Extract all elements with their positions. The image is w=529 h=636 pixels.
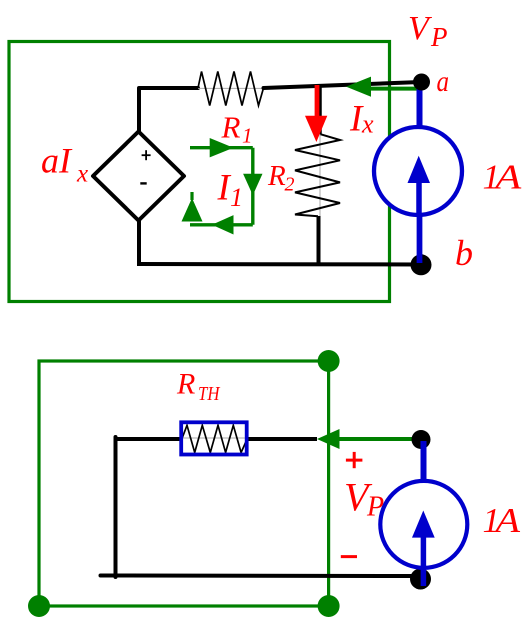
green arrow to VP+ (tail) bbox=[338, 437, 421, 441]
green junction dot top-right bbox=[318, 350, 340, 372]
svg-text:P: P bbox=[366, 492, 384, 523]
node a dot bbox=[413, 74, 430, 91]
svg-text:1: 1 bbox=[230, 183, 243, 212]
green outer loop rectangle bbox=[39, 361, 329, 606]
mesh current I1 loop: top line bbox=[190, 146, 253, 149]
svg-text:R: R bbox=[176, 368, 195, 401]
wire: sloped from R1 to node a bbox=[264, 82, 422, 88]
blue wire node to source top (bottom circuit) bbox=[421, 441, 427, 482]
current source arrowhead (up) bbox=[408, 156, 431, 183]
svg-text:V: V bbox=[408, 10, 433, 47]
wire: thin line through RTH bbox=[182, 437, 247, 439]
svg-text:a: a bbox=[437, 65, 450, 98]
green arrow to VP+ (head) bbox=[317, 429, 340, 449]
svg-text:2: 2 bbox=[285, 174, 295, 196]
red current arrow Ix (head) bbox=[305, 116, 327, 142]
green junction dot bottom-left bbox=[28, 595, 50, 617]
resistor R1 zigzag bbox=[198, 72, 264, 106]
svg-text:b: b bbox=[455, 233, 473, 273]
wire: thin line through R1 bbox=[198, 87, 264, 89]
svg-text:aI: aI bbox=[41, 141, 73, 181]
svg-text:R: R bbox=[267, 160, 286, 192]
I1 loop: left up-arrow stub bbox=[190, 192, 193, 200]
label plus bbox=[346, 452, 363, 468]
svg-text:1: 1 bbox=[242, 124, 253, 148]
wire: diamond bottom lead bbox=[137, 220, 141, 267]
resistor RTH zigzag bbox=[182, 425, 247, 452]
wire: R2 bottom lead bbox=[317, 216, 321, 266]
svg-text:A: A bbox=[493, 158, 522, 197]
red current arrow Ix (shaft) bbox=[315, 85, 320, 117]
I1 loop: bottom line bbox=[190, 223, 253, 226]
svg-text:P: P bbox=[430, 22, 448, 52]
wire: inner top left segment bbox=[114, 437, 182, 441]
blue wire source arrow shaft down to node b bbox=[417, 178, 423, 263]
green junction dot bottom-right bbox=[318, 595, 340, 617]
I1 loop: bottom arrowhead (left) bbox=[212, 215, 234, 234]
wire: inner bottom bbox=[101, 574, 422, 579]
diamond minus sign bbox=[140, 182, 146, 184]
Thevenin network enclosure box (green) bbox=[9, 42, 390, 302]
green arrow into node a (tail) bbox=[370, 87, 420, 91]
wire: bottom horizontal bbox=[139, 262, 421, 267]
wire: thin line through R2 bbox=[319, 134, 321, 216]
label minus bbox=[341, 555, 357, 558]
diamond plus sign bbox=[142, 150, 151, 160]
resistor R2 zigzag bbox=[295, 134, 340, 216]
node b dot bbox=[411, 254, 432, 275]
svg-text:x: x bbox=[76, 161, 88, 188]
wire: inner left vertical bbox=[114, 437, 118, 577]
wire: inner top right segment bbox=[249, 437, 318, 441]
node dot bottom (bottom circuit) bbox=[410, 569, 431, 590]
current source circle (bottom, 1A) bbox=[380, 481, 467, 568]
dependent source diamond aIx bbox=[93, 132, 184, 221]
svg-text:TH: TH bbox=[198, 383, 221, 405]
I1 loop: left arrowhead (up) bbox=[182, 198, 203, 222]
green arrow into node a (head) bbox=[346, 77, 371, 97]
svg-text:x: x bbox=[361, 110, 374, 139]
svg-text:A: A bbox=[493, 501, 520, 540]
wire: R2 top lead bbox=[318, 87, 322, 134]
svg-text:R: R bbox=[221, 110, 241, 145]
current source arrowhead (bottom, up) bbox=[412, 511, 435, 538]
blue wire node a to source top bbox=[417, 84, 423, 127]
current source arrow shaft (bottom) bbox=[421, 533, 427, 586]
resistor RTH blue box bbox=[181, 422, 247, 454]
I1 loop: top arrowhead (right) bbox=[210, 138, 234, 157]
current source arrow shaft (inside) bbox=[416, 176, 422, 217]
blue lead below circle bbox=[417, 215, 423, 263]
wire: top-left vertical + horizontal to R1 bbox=[139, 88, 198, 133]
I1 loop: right line bbox=[251, 148, 254, 225]
node dot top (bottom circuit) bbox=[412, 430, 431, 449]
current source circle (top, 1A) bbox=[374, 127, 462, 215]
I1 loop: right arrowhead (down) bbox=[243, 174, 262, 196]
